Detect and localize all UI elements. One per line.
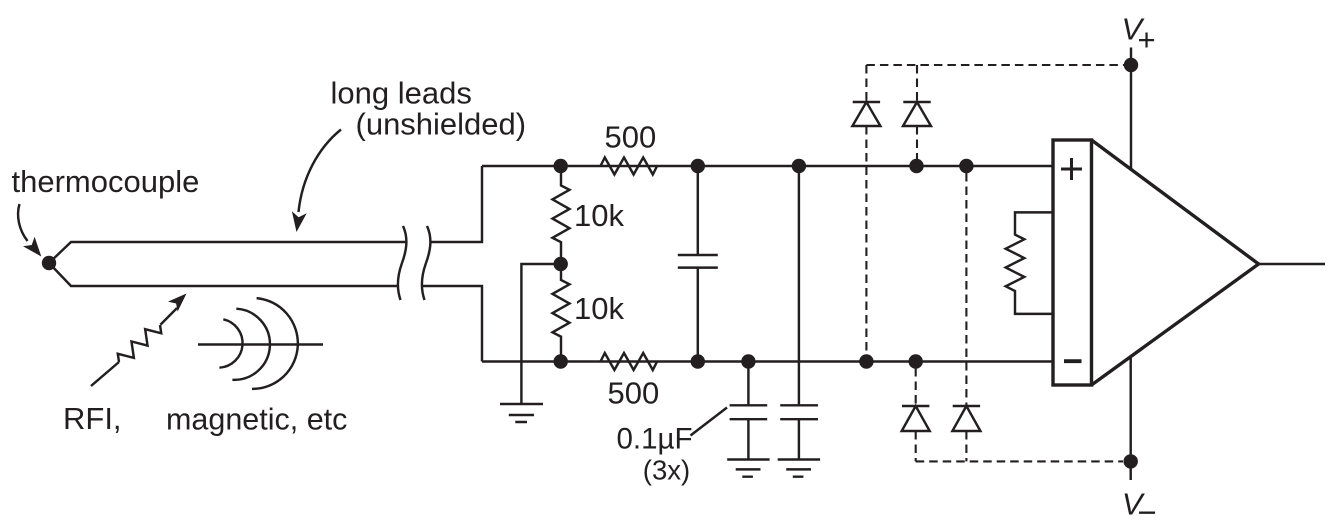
node dot bottom rail A — [554, 354, 568, 368]
diode D2 — [903, 102, 931, 126]
wire divider midpoint to ground — [521, 264, 560, 404]
magnetic field arc middle — [232, 309, 270, 380]
diode D1 — [852, 102, 880, 126]
dashed V+ rail — [866, 64, 1124, 66]
svg-text:500: 500 — [608, 376, 660, 411]
V- node dot — [1124, 454, 1138, 468]
node dot top rail D4 — [959, 159, 973, 173]
svg-text:0.1µF: 0.1µF — [617, 422, 693, 455]
wire bottom lead (right of break) — [421, 286, 482, 362]
arrow thermocouple label to junction — [18, 204, 27, 241]
resistor Rg (gain) — [1006, 212, 1053, 314]
arrow long leads label to lead — [299, 130, 342, 213]
wire bottom rail — [482, 360, 1053, 362]
capacitor differential C1 — [678, 166, 718, 362]
diode D2 (top rail to V+) dashed leads — [916, 65, 918, 159]
wire bottom lead (left of break) — [49, 263, 398, 286]
V+ node dot — [1124, 58, 1138, 72]
dashed V- rail — [916, 460, 1123, 462]
svg-text:500: 500 — [605, 120, 657, 155]
ground symbol (divider) — [500, 404, 543, 422]
V- supply wire and stub — [1129, 358, 1131, 481]
svg-text:(unshielded): (unshielded) — [356, 107, 527, 142]
op-amp plus input marker — [1061, 158, 1082, 180]
wire top lead (left of break) — [49, 242, 406, 263]
wire top lead (right of break) — [430, 166, 482, 242]
ground symbol (C3) — [778, 460, 820, 477]
resistor 500 (top) — [601, 158, 658, 175]
svg-text:(3x): (3x) — [643, 454, 690, 485]
capacitor C3 top rail to ground (wire crosses bottom rail) — [780, 166, 818, 460]
resistor 500 (bottom) — [601, 353, 658, 370]
node dot top rail A — [554, 159, 568, 173]
arrow RFI zigzag — [91, 362, 119, 386]
svg-text:10k: 10k — [574, 198, 624, 233]
cable break curve left — [398, 226, 406, 300]
resistor 10k lower — [553, 264, 570, 362]
magnetic field arc small — [219, 319, 242, 367]
wire top rail — [482, 165, 1053, 167]
node dot D2 to top rail — [909, 159, 923, 173]
svg-text:RFI,: RFI, — [63, 401, 122, 436]
diode D3 — [902, 406, 930, 431]
diode D4 — [952, 406, 980, 431]
op-amp minus input marker — [1064, 359, 1082, 363]
svg-text:10k: 10k — [574, 291, 624, 326]
node dot bottom rail D3 — [909, 354, 923, 368]
cable break curve right — [422, 226, 430, 300]
node dot bottom rail B — [691, 354, 705, 368]
op-amp U1 input rectangle — [1053, 140, 1092, 385]
svg-text:+: + — [1138, 22, 1156, 57]
thermocouple junction dot — [42, 256, 56, 270]
V+ stub and supply wire — [1130, 48, 1132, 171]
magnetic field arc large — [252, 298, 298, 389]
diode D1 (bottom rail to V+) dashed leads — [865, 65, 867, 355]
pointer line from 0.1uF label to C2 — [691, 408, 728, 436]
capacitor C2 bottom rail to ground — [730, 362, 768, 460]
node dot divider midpoint — [554, 257, 568, 271]
node dot bottom rail C — [741, 354, 755, 368]
diode D3 (bottom rail to V-) dashed leads — [915, 368, 917, 461]
node dot top rail B — [691, 159, 705, 173]
svg-text:long leads: long leads — [331, 76, 472, 111]
magnetic field axis line — [198, 343, 323, 345]
resistor 10k upper — [553, 166, 570, 264]
ground symbol (C2) — [727, 460, 769, 477]
op-amp U1 triangle — [1092, 140, 1259, 385]
node dot top rail C — [792, 159, 806, 173]
svg-text:−: − — [1138, 493, 1157, 529]
svg-text:magnetic, etc: magnetic, etc — [166, 403, 347, 437]
diode D4 (top rail to V-) dashed leads (crosses bottom rail) — [965, 173, 967, 461]
wire op-amp output — [1259, 263, 1325, 265]
node dot D1 to bottom rail — [859, 354, 873, 368]
svg-text:thermocouple: thermocouple — [12, 164, 200, 199]
